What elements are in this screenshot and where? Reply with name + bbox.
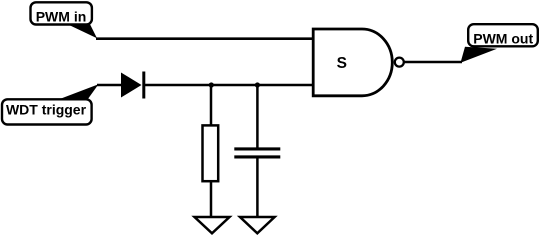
node junction at resistor — [209, 82, 214, 87]
resistor R1 — [203, 125, 219, 181]
svg-text:PWM in: PWM in — [36, 8, 87, 24]
label PWM out — [461, 24, 538, 63]
wire resistor bottom to ground — [210, 181, 213, 216]
wire node to capacitor top — [256, 85, 259, 148]
label WDT trigger — [2, 84, 99, 124]
label PWM in — [31, 2, 98, 38]
svg-text:WDT trigger: WDT trigger — [6, 101, 87, 117]
ground (left) — [195, 217, 230, 233]
capacitor C1 — [234, 149, 280, 157]
wire node to resistor top — [210, 85, 213, 127]
wire capacitor bottom to ground — [256, 158, 259, 216]
diode D1 — [121, 72, 144, 99]
wire PWM out net — [404, 61, 462, 64]
node junction at capacitor — [255, 82, 260, 87]
wire WDT trigger net (bottom horizontal, anode side) — [97, 84, 122, 87]
node output bubble — [395, 58, 404, 67]
wire PWM in net (top horizontal) — [96, 37, 313, 40]
op-amp U1 NAND Schmitt gate body — [313, 29, 392, 96]
svg-text:PWM out: PWM out — [473, 30, 533, 46]
wire cathode to gate input B — [144, 84, 313, 87]
ground (right) — [240, 217, 275, 233]
svg-text:S: S — [337, 55, 347, 72]
